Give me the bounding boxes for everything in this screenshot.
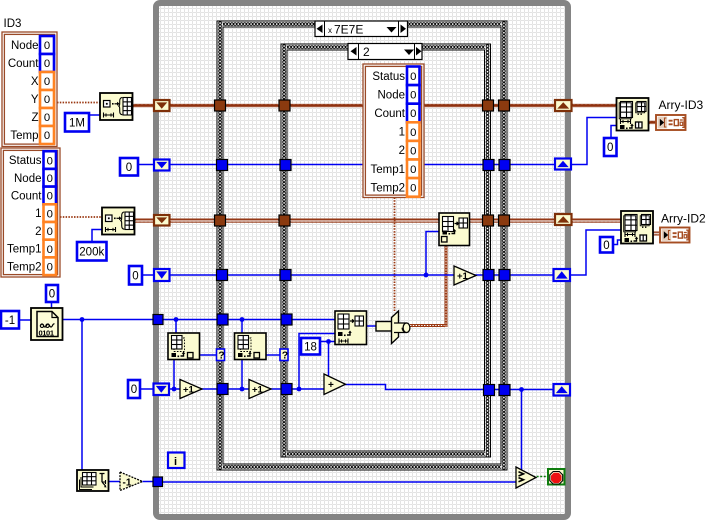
node initialize-array B (200k) bbox=[102, 208, 135, 235]
svg-text:200k: 200k bbox=[79, 246, 104, 258]
wire row5 array node to -1 bbox=[108, 481, 120, 483]
svg-text:?: ? bbox=[282, 350, 288, 362]
tunnel case1 left brown row1 bbox=[215, 100, 226, 111]
tunnel case2 right brown row1 bbox=[483, 100, 494, 111]
constant 0 arry-id2 bbox=[600, 237, 613, 253]
svg-text:0101: 0101 bbox=[39, 329, 54, 338]
tunnel case1 left brown row2 bbox=[215, 215, 226, 226]
case2 selector terminal ? bbox=[280, 349, 288, 362]
svg-text:0: 0 bbox=[44, 130, 50, 142]
junction row4 d bbox=[519, 387, 524, 392]
tunnel case2 right blue row4 bbox=[484, 385, 495, 396]
svg-text:Temp1: Temp1 bbox=[7, 244, 42, 256]
svg-text:0: 0 bbox=[131, 384, 137, 396]
tunnel loop left row3 bbox=[153, 315, 163, 325]
svg-text:+1: +1 bbox=[457, 271, 469, 282]
wire row4 drop to greater-equal bbox=[521, 390, 523, 471]
wire row3 drop to index node 1 bbox=[175, 320, 177, 334]
svg-text:Status: Status bbox=[9, 155, 42, 167]
constant 0 row1 bbox=[120, 158, 138, 176]
constant 0 file bbox=[46, 285, 58, 302]
svg-text:0: 0 bbox=[47, 244, 53, 256]
tunnel case2 left brown row2 bbox=[279, 215, 290, 226]
svg-text:ID3: ID3 bbox=[4, 18, 22, 30]
svg-text:0: 0 bbox=[44, 76, 50, 88]
constant 1M bbox=[65, 113, 89, 132]
svg-text:0: 0 bbox=[607, 142, 613, 154]
svg-text:0: 0 bbox=[47, 173, 53, 185]
wire row4 up to index node2 bbox=[241, 360, 243, 390]
wire 0 const to file node bbox=[51, 302, 53, 308]
svg-text:+1: +1 bbox=[252, 385, 264, 396]
wire row1 blue to Arry-ID3 node bbox=[570, 118, 617, 165]
wire row1 blue 0 to shift register bbox=[138, 164, 156, 166]
svg-text:Temp2: Temp2 bbox=[370, 182, 405, 194]
svg-text:0: 0 bbox=[44, 94, 50, 106]
node array-subset Arry-ID3 bbox=[617, 98, 649, 131]
svg-text:0: 0 bbox=[410, 164, 416, 176]
junction row3 a bbox=[174, 317, 179, 322]
wire 18 branch down to adder bbox=[328, 342, 330, 381]
case structure inner (2) border bbox=[281, 44, 491, 457]
svg-text:+1: +1 bbox=[183, 385, 195, 396]
junction 18 bbox=[326, 339, 331, 344]
svg-text:-1: -1 bbox=[5, 315, 15, 327]
shift register right blue row2 bbox=[554, 269, 571, 281]
svg-text:1M: 1M bbox=[69, 117, 85, 129]
svg-text:0: 0 bbox=[410, 108, 416, 120]
shift register left blue row1 bbox=[154, 160, 170, 171]
wire row1 cluster dotted brown bbox=[57, 102, 100, 104]
cluster constant ID3 bbox=[2, 32, 57, 147]
shift register right blue row1 bbox=[555, 159, 571, 170]
node add bbox=[324, 374, 346, 395]
svg-text:0: 0 bbox=[47, 261, 53, 273]
wire row2 cluster dotted brown bbox=[60, 216, 102, 218]
tunnel case1 right brown row2 bbox=[499, 215, 510, 226]
svg-text:1: 1 bbox=[399, 127, 405, 139]
wire row2 blue branch to replace node bbox=[426, 232, 439, 276]
wire typecast out dotted brown bbox=[410, 324, 446, 327]
svg-text:Temp2: Temp2 bbox=[7, 261, 42, 273]
wire row1 brown array hatched bbox=[132, 104, 617, 108]
node replace-array-subset bbox=[439, 213, 470, 246]
node index-array 2 bbox=[235, 333, 267, 360]
node increment 3 bbox=[454, 266, 476, 285]
svg-text:Arry-ID2: Arry-ID2 bbox=[661, 212, 706, 226]
svg-text:Node: Node bbox=[11, 40, 39, 52]
wire inner cluster to typecast dotted brown vertical bbox=[394, 198, 396, 312]
svg-text:Status: Status bbox=[372, 71, 405, 83]
svg-text:X: X bbox=[31, 76, 39, 88]
wire row4 blue across to adder bbox=[168, 388, 326, 390]
wire green to stop terminal bbox=[533, 476, 548, 478]
while loop frame bbox=[156, 3, 568, 517]
shift register left blue row4 bbox=[154, 384, 170, 396]
loop condition stop terminal bbox=[548, 469, 565, 485]
wire 0 to Arry-ID3 node bbox=[611, 126, 617, 139]
wire row3 drop to index node 2 bbox=[241, 320, 243, 334]
indicator terminal Arry-ID3 bbox=[656, 115, 686, 130]
wire row2 blue 0 to shift register bbox=[142, 274, 156, 276]
svg-text:18: 18 bbox=[304, 341, 317, 353]
wire row4 up over 18 to array subset index bbox=[299, 334, 335, 390]
svg-text:0: 0 bbox=[47, 208, 53, 220]
constant 0 row2 bbox=[129, 266, 142, 285]
svg-text:0: 0 bbox=[47, 191, 53, 203]
svg-text:0: 0 bbox=[44, 58, 50, 70]
wire row3 branch down to array node bbox=[81, 320, 83, 471]
wire 18 to array subset bbox=[320, 341, 335, 343]
tunnel case1 left blue row3 bbox=[217, 314, 228, 325]
node multiply -1 triangle bbox=[120, 472, 143, 491]
wire index2 out to selector ? bbox=[266, 354, 280, 356]
constant 18 bbox=[301, 338, 320, 355]
tunnel case1 left blue row4 bbox=[217, 384, 228, 395]
node array-subset mid bbox=[335, 311, 367, 345]
svg-text:0: 0 bbox=[410, 127, 416, 139]
shift register left brown row2 bbox=[154, 215, 170, 226]
constant -1 bbox=[1, 311, 19, 329]
junction row3 b bbox=[240, 317, 245, 322]
svg-text:Count: Count bbox=[8, 58, 39, 70]
wire 1M to initialize-array A bbox=[89, 114, 100, 116]
svg-text:2: 2 bbox=[35, 226, 41, 238]
tunnel case2 left brown row1 bbox=[279, 100, 290, 111]
constant 0 arry-id3 bbox=[604, 138, 617, 156]
svg-text:2: 2 bbox=[399, 145, 405, 157]
case1 selector terminal ? bbox=[217, 349, 225, 362]
svg-text:0: 0 bbox=[49, 289, 55, 301]
case selector label x 7E7E bbox=[315, 21, 408, 37]
svg-text:0: 0 bbox=[44, 112, 50, 124]
svg-text:Count: Count bbox=[11, 190, 42, 202]
node read-binary-file bbox=[31, 308, 63, 340]
svg-text:Temp: Temp bbox=[10, 130, 38, 142]
node increment 2 bbox=[249, 380, 271, 399]
junction row4 c bbox=[297, 387, 302, 392]
svg-text:0: 0 bbox=[603, 240, 609, 252]
wire row5 blue across bottom bbox=[161, 481, 517, 483]
svg-text:0: 0 bbox=[410, 90, 416, 102]
node type-cast bbox=[376, 311, 410, 344]
junction row3 left bbox=[80, 317, 85, 322]
wire typecast to replace-node vertical dotted brown bbox=[445, 244, 448, 327]
svg-text:7E7E: 7E7E bbox=[334, 23, 363, 37]
tunnel case2 left blue row2 bbox=[280, 270, 291, 281]
indicator terminal Arry-ID2 bbox=[660, 228, 690, 243]
wire 0 to Arry-ID2 node bbox=[613, 240, 621, 245]
wire index1 out to selector ? bbox=[200, 354, 218, 356]
svg-text:Arry-ID3: Arry-ID3 bbox=[659, 98, 704, 112]
wire array subset out to typecast bbox=[366, 325, 378, 327]
node increment 1 bbox=[180, 380, 202, 399]
svg-text:1: 1 bbox=[35, 208, 41, 220]
cluster constant inner case bbox=[363, 64, 424, 198]
tunnel case1 left blue row1 bbox=[217, 160, 228, 171]
svg-text:Node: Node bbox=[378, 89, 406, 101]
wire arry-ID3 indicator brown bbox=[648, 121, 657, 125]
node greater-or-equal bbox=[516, 467, 536, 488]
svg-text:Z: Z bbox=[31, 112, 38, 124]
tunnel case1 right blue row4 bbox=[499, 385, 510, 396]
svg-text:0: 0 bbox=[132, 270, 138, 282]
constant 200k bbox=[77, 242, 107, 261]
svg-text:0: 0 bbox=[410, 71, 416, 83]
wire adder out with step bbox=[345, 385, 554, 390]
svg-text:Y: Y bbox=[31, 94, 39, 106]
node index-array 1 bbox=[168, 333, 200, 360]
wire row2 brown array hatched bbox=[134, 219, 621, 223]
tunnel case2 left blue row4 bbox=[281, 384, 292, 395]
wire row4 blue 0 to shift register bbox=[140, 388, 156, 390]
tunnel case2 right blue row1 bbox=[483, 160, 494, 171]
svg-text:x: x bbox=[328, 26, 332, 35]
wire row3 blue file node across bbox=[63, 319, 157, 321]
wire row3 blue inside loop bbox=[162, 319, 335, 321]
wire row1 blue across loop bbox=[168, 164, 556, 166]
svg-text:0: 0 bbox=[126, 162, 132, 174]
tunnel case2 left blue row1 bbox=[280, 160, 291, 171]
svg-text:Count: Count bbox=[374, 108, 405, 120]
wire -1 const to file node bbox=[19, 319, 31, 321]
shift register right blue row4 bbox=[554, 384, 571, 396]
tunnel case1 right brown row1 bbox=[499, 100, 510, 111]
svg-text:0: 0 bbox=[47, 155, 53, 167]
constant 0 row4 bbox=[128, 380, 140, 398]
wire row2 blue across loop bbox=[168, 274, 554, 276]
svg-text:?: ? bbox=[218, 350, 224, 362]
shift register right brown row1 bbox=[555, 100, 572, 111]
loop iteration terminal i bbox=[168, 453, 185, 469]
svg-text:0: 0 bbox=[47, 226, 53, 238]
wire row5 -1 to tunnel bbox=[143, 481, 155, 483]
svg-text:+: + bbox=[328, 380, 334, 391]
svg-text:2: 2 bbox=[363, 45, 370, 59]
junction row4 b bbox=[240, 387, 245, 392]
shift register left blue row2 bbox=[154, 269, 170, 281]
svg-text:i: i bbox=[174, 456, 177, 468]
tunnel case2 left blue row3 bbox=[281, 314, 292, 325]
wire row2 blue to Arry-ID2 node bbox=[570, 230, 621, 275]
svg-text:0: 0 bbox=[410, 145, 416, 157]
svg-text:Temp1: Temp1 bbox=[370, 164, 405, 176]
wire 200k to initialize-array B bbox=[92, 230, 102, 243]
wire row4 up to index node1 bbox=[173, 360, 175, 390]
node array-reshape bottom-left bbox=[77, 470, 109, 491]
node initialize-array A (1M) bbox=[100, 93, 133, 120]
case selector label 2 bbox=[348, 44, 422, 60]
tunnel loop left row5 bbox=[153, 477, 163, 487]
tunnel case1 right blue row2 bbox=[499, 270, 510, 281]
junction row2 blue bbox=[424, 273, 429, 278]
shift register left brown row1 bbox=[154, 100, 170, 111]
case structure outer (x 7E7E) border bbox=[217, 21, 507, 470]
junction row4 a bbox=[172, 387, 177, 392]
tunnel case1 left blue row2 bbox=[217, 270, 228, 281]
svg-text:-1: -1 bbox=[123, 478, 132, 489]
cluster constant row2 bbox=[1, 148, 60, 277]
svg-text:0: 0 bbox=[44, 40, 50, 52]
wire arry-ID2 indicator brown bbox=[653, 232, 661, 236]
node array-subset Arry-ID2 bbox=[621, 211, 653, 244]
svg-text:0: 0 bbox=[410, 183, 416, 195]
tunnel case2 right blue row2 bbox=[483, 270, 494, 281]
tunnel case1 right blue row1 bbox=[499, 160, 510, 171]
svg-text:Node: Node bbox=[14, 173, 42, 185]
tunnel case2 right brown row2 bbox=[483, 215, 494, 226]
shift register right brown row2 bbox=[555, 214, 572, 225]
